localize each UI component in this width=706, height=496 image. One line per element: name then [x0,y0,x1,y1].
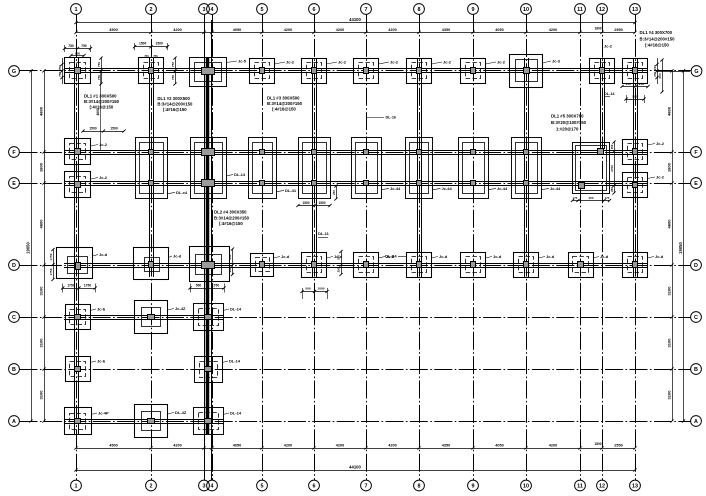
svg-text:B: B [694,367,698,373]
axis line 1 (vertical) [76,15,78,481]
grid bubble 8 bottom [414,480,425,491]
beam label DL-11 on column 6 beam [318,237,328,239]
svg-text:6: 6 [313,7,316,13]
label leader footing B/1 [90,361,96,363]
svg-text:4800: 4800 [96,108,100,115]
svg-text:19050: 19050 [678,242,683,254]
footing J-2 at G/6 [302,59,327,84]
svg-text:F: F [694,150,698,156]
svg-text:1000: 1000 [318,287,325,291]
label leader footing G/12 (above) [602,49,604,58]
grid bubble 3 top [199,4,210,15]
svg-text:4800: 4800 [39,219,44,229]
svg-text:2550: 2550 [614,28,622,32]
footing J-2 at F/1 [65,139,91,165]
footing J-3 at G/10 [510,55,543,88]
svg-text:Jc-d: Jc-d [546,254,555,259]
svg-text:Jc-d: Jc-d [439,254,448,259]
segment dimension line right [672,71,674,421]
segment dimension line top [76,32,635,34]
svg-text:750: 750 [68,44,74,48]
svg-text:10: 10 [523,484,529,490]
grid bubble 8 top [414,4,425,15]
svg-text:9: 9 [472,7,475,13]
combined footing J-6 at F-E/11-12 (large) [573,143,610,194]
svg-text:500: 500 [75,51,80,55]
label leader footing G/6 [327,62,338,64]
svg-text:Jc-d: Jc-d [655,254,664,259]
label leader footing G/5 [275,62,286,64]
svg-text:13: 13 [632,484,638,490]
svg-text:DL1 #2 300X500: DL1 #2 300X500 [157,96,190,101]
footing J-2 at D/6 [302,253,327,278]
axis line A (horizontal) [20,421,691,423]
svg-text:1800: 1800 [594,26,601,30]
grid bubble E left [9,178,20,189]
label leader footing D/11 [593,257,599,259]
grid bubble 5 top [257,4,268,15]
svg-text:2700: 2700 [610,165,614,172]
svg-text:Jc-2: Jc-2 [656,174,665,179]
grid bubble A left [9,416,20,427]
combined footing J-4 at F-E/2 [136,138,168,199]
svg-text:5: 5 [261,484,264,490]
svg-text:Jc-2: Jc-2 [338,59,347,64]
svg-text:DL-11: DL-11 [318,231,330,236]
svg-text:B:3#14@200#150: B:3#14@200#150 [157,101,193,106]
svg-text:DL-14: DL-14 [604,92,615,96]
label leader footing D/8 (left) [398,256,407,258]
svg-text:750: 750 [58,65,62,70]
foundation beam row A [64,419,224,421]
segment dimension line bottom [76,448,635,450]
overall dimension line right (19050) [683,71,685,421]
svg-text:1800: 1800 [39,162,44,172]
svg-text:Jc-d: Jc-d [281,254,290,259]
svg-text:750: 750 [171,62,175,67]
svg-text:6: 6 [313,484,316,490]
svg-text:4200: 4200 [549,28,557,32]
dimension bracket right of footing D/6 [341,252,343,275]
grid bubble 10 bottom [521,480,532,491]
svg-text:4800: 4800 [39,106,44,116]
label leader footing A/1 [91,413,97,415]
axis line 12 (vertical) [602,15,604,481]
svg-text:Jc-d: Jc-d [493,254,502,259]
svg-text:Jc-4P: Jc-4P [98,410,109,415]
overall dimension line left (19050) [31,71,33,421]
svg-text:3100: 3100 [667,338,672,348]
svg-text:4: 4 [211,7,214,13]
svg-text:250: 250 [228,267,232,272]
footing J-2 at B/3-4 [195,357,223,383]
foundation beam column 13 [633,58,635,277]
svg-text:500: 500 [196,283,202,287]
dimension bracket above footing G/2 [135,46,168,48]
footing J-2 at G/13 [623,59,648,84]
grid bubble 6 top [309,4,320,15]
svg-text:B:3#14@200#150: B:3#14@200#150 [640,36,676,41]
grid bubble D right [691,260,702,271]
svg-text:G: G [694,69,698,75]
svg-text:DL-41: DL-41 [285,188,297,193]
label leader footing C/1 [90,309,96,311]
svg-text:DL-x4: DL-x4 [176,190,188,195]
grid bubble 1 top [71,4,82,15]
svg-text:4050: 4050 [495,28,503,32]
foundation beam row F [64,150,648,152]
svg-text:Jc-2: Jc-2 [604,44,613,49]
svg-text:D: D [694,263,698,269]
dimension leader line between G/1 and F/1 [100,73,102,150]
grid bubble 4 top [207,4,218,15]
footing J-2 at E/1 [65,172,91,198]
axis line 4 (vertical) [212,15,214,481]
foundation beam row E [64,181,648,183]
footing J-2 at D/5 [251,254,274,277]
axis line F (horizontal) [20,152,691,154]
foundation beam column 6 [312,58,314,277]
combined footing J-4 at F-E/9 [459,138,489,199]
grid bubble 10 top [521,4,532,15]
footing J-2 at G/7 [354,59,379,84]
svg-text:Jc-44: Jc-44 [442,186,453,191]
svg-text:4200: 4200 [336,444,344,448]
svg-text:4200: 4200 [173,444,181,448]
svg-text:C: C [12,315,16,321]
grid bubble A right [691,416,702,427]
overall dimension line bottom (44100) [76,470,635,472]
svg-text:750: 750 [171,75,175,80]
axis line 10 (vertical) [526,15,528,481]
dimension bracket below footing G/13 [622,86,648,88]
label leader footing G/7 [379,62,390,64]
svg-text:1800: 1800 [667,162,672,172]
grid bubble B left [9,364,20,375]
svg-text:4200: 4200 [549,444,557,448]
dimension bracket below footing D/3-4 [190,288,224,290]
svg-text:3100: 3100 [39,338,44,348]
svg-text:4500: 4500 [109,28,117,32]
footing J-2 at G/9 [461,59,486,84]
svg-text:4200: 4200 [284,444,292,448]
svg-text:DL-16: DL-16 [386,116,397,120]
label leader footing G/8 [432,62,443,64]
svg-text:500: 500 [658,73,662,78]
dimension bracket right of footing D/3-4 [232,249,234,275]
dimension bracket left of footing G/1 [62,58,64,84]
axis line 3 (vertical) [204,15,206,481]
overall dimension line top (44100) [76,22,635,24]
footing J-1 at G/1 [65,58,91,84]
grid bubble E right [691,178,702,189]
grid bubble 11 top [575,4,586,15]
svg-text:250: 250 [653,71,657,76]
svg-text:DL1 #5 300X700: DL1 #5 300X700 [551,114,584,119]
axis line 6 (vertical) [314,15,316,481]
grid bubble 2 bottom [146,480,157,491]
svg-text:4200: 4200 [284,28,292,32]
footing J-3 at D/1 [57,248,93,279]
svg-text:1750: 1750 [67,283,75,287]
svg-text:5: 5 [261,7,264,13]
axis line G (horizontal) [20,70,691,72]
footing J-2 at D/10 [514,253,539,278]
label leader footing D/9 [486,257,493,259]
footing J-2 at G/8 [407,59,432,84]
dimension bracket left of footing D/1 [53,250,55,280]
combined footing J-4 at F-E/3-4 [191,138,227,199]
label leader footing G/10 [543,61,552,63]
footing J-5 at G/3-4 (wall footing) [190,58,227,87]
footing J-7 at C/2 [135,301,168,334]
svg-text:44100: 44100 [349,464,361,469]
svg-text:250: 250 [610,144,614,149]
svg-text:1750: 1750 [49,253,53,260]
dimension bracket above footing G/1 [65,48,91,50]
svg-text:B: B [12,367,16,373]
label leader footing D/7 [379,257,386,259]
svg-text:13: 13 [632,7,638,13]
label leader footing D/2 [169,256,173,258]
svg-text:A: A [12,419,16,425]
label leader footing D/6 [327,257,334,259]
footing J-2 at D/13 [623,253,648,278]
svg-text:1750: 1750 [49,268,53,275]
combined footing J-4 at F-E/5 [249,138,277,199]
svg-text:B:3#14@200#150: B:3#14@200#150 [214,215,250,220]
svg-text:B:3#14@200#150: B:3#14@200#150 [84,99,120,104]
axis line 8 (vertical) [419,15,421,481]
footing J-1 at G/2 [139,58,164,84]
svg-text:Jc-2: Jc-2 [286,59,295,64]
footing J-2 at D/11 [569,253,594,278]
footing J-2 at C/3-4 [194,304,224,331]
footing J-2 at A/1 [65,408,92,435]
combined footing J-4 at F-E/10 [512,138,542,199]
grid bubble C right [691,312,702,323]
svg-text:1: 1 [75,7,78,13]
svg-text:4350: 4350 [442,444,450,448]
label leader footing D/1 [93,255,99,256]
dimension bracket below footing D/1 [63,288,95,290]
svg-text:Jc-b: Jc-b [97,306,106,311]
svg-text:4800: 4800 [667,219,672,229]
footing J-2 at B/1 [66,357,91,382]
svg-text:(:4#16@150: (:4#16@150 [645,43,669,48]
svg-text:1500: 1500 [89,127,97,131]
label leader footing D/13 [648,257,655,259]
svg-text:1500: 1500 [139,41,147,45]
label leader footing E/1 [91,178,98,180]
svg-text:Jc-b: Jc-b [97,358,106,363]
svg-text:250: 250 [228,254,232,259]
grid bubble G left [9,66,20,77]
grid bubble 13 top [630,4,641,15]
foundation beam column 8 [417,58,419,277]
foundation beam row C [64,315,224,317]
combined footing J-4 at F-E/6 [299,138,331,199]
svg-text:8: 8 [418,484,421,490]
svg-text:10: 10 [523,7,529,13]
svg-text:12: 12 [599,7,605,13]
svg-text:750: 750 [81,44,87,48]
label leader footing A/3-4 [223,413,229,415]
grid bubble 1 bottom [71,480,82,491]
svg-text:250: 250 [653,65,657,70]
footing J-2 at G/5 [250,59,275,84]
grid bubble 11 bottom [575,480,586,491]
svg-text:4200: 4200 [336,28,344,32]
svg-text:7: 7 [365,484,368,490]
svg-text:4050: 4050 [495,444,503,448]
svg-text:DL-14: DL-14 [229,358,241,363]
axis line 2 (vertical) [151,15,153,481]
grid bubble 12 top [597,4,608,15]
svg-text:E: E [12,181,16,187]
label leader footing C/2 [168,309,175,311]
svg-text:750: 750 [153,54,158,58]
grid bubble 6 bottom [309,480,320,491]
footing J-2 at E/13 [623,173,648,198]
label leader footing D/5 [274,257,281,259]
svg-text:Jc-44: Jc-44 [390,186,401,191]
dimension bracket below footing 11-12 [573,200,610,202]
grid bubble B right [691,364,702,375]
grid bubble 9 bottom [468,480,479,491]
grid bubble G right [657,71,690,73]
footing J-2 at D/8 [407,253,432,278]
svg-text:1500: 1500 [156,41,164,45]
wall line 3-4 (heavy) [206,57,210,435]
axis line 11 (vertical) [580,15,582,481]
beam label on column 12 beam [605,96,611,98]
svg-text:250: 250 [337,267,341,272]
svg-text:DL1 #4 300X700: DL1 #4 300X700 [640,30,673,35]
svg-text:1: 1 [75,484,78,490]
svg-text:DL1 #3 300X500: DL1 #3 300X500 [267,96,300,101]
grid bubble F left [9,147,20,158]
svg-text:4200: 4200 [173,28,181,32]
svg-text:12: 12 [599,484,605,490]
svg-text:4500: 4500 [109,444,117,448]
svg-text:3: 3 [203,484,206,490]
svg-text:DL-4Z: DL-4Z [175,410,187,415]
grid bubble C left [9,312,20,323]
svg-text:4350: 4350 [442,28,450,32]
svg-text:Jc-2: Jc-2 [99,175,108,180]
svg-text:4: 4 [211,484,214,490]
label leader footing C/3-4 [223,309,229,311]
svg-text:2: 2 [150,484,153,490]
svg-text:DL-14: DL-14 [230,410,242,415]
footing J-2 at D/7 [354,253,379,278]
svg-text:F: F [12,150,16,156]
svg-text:DL-14: DL-14 [234,172,246,177]
axis line C (horizontal) [20,317,691,319]
grid bubble 7 bottom [361,480,372,491]
grid bubble 13 bottom [630,480,641,491]
svg-text:E: E [694,181,698,187]
footing J-2 at G/12 [590,59,615,84]
svg-text:3100: 3100 [39,390,44,400]
axis line 5 (vertical) [262,15,264,481]
label leader footing G/3-4 [227,61,238,63]
dimension bracket above footing F/1 [83,131,124,133]
dimension bracket right of footing G/13 [657,58,659,84]
svg-text:2: 2 [150,7,153,13]
svg-text:1:#20@170: 1:#20@170 [556,126,579,131]
svg-text:1800: 1800 [594,442,601,446]
svg-text:Jc-2: Jc-2 [390,59,399,64]
svg-text:Jc-44: Jc-44 [550,186,561,191]
svg-text:500: 500 [305,287,310,291]
svg-text:DL-E4: DL-E4 [385,253,397,258]
svg-text:(:4#16@150: (:4#16@150 [163,107,187,112]
combined footing J-4 at F-E/7 [352,138,382,199]
svg-text:B:3#20@100#150: B:3#20@100#150 [551,120,587,125]
svg-text:DL-14: DL-14 [230,306,242,311]
svg-text:4200: 4200 [388,28,396,32]
svg-text:Jc-3: Jc-3 [552,58,561,63]
svg-text:4050: 4050 [233,444,241,448]
foundation beam column 10 [524,58,526,277]
svg-text:1500: 1500 [302,201,309,205]
svg-text:1750: 1750 [212,283,220,287]
axis line 9 (vertical) [473,15,475,481]
grid bubble 2 top [146,4,157,15]
label leader footing F/13 [648,144,656,146]
footing J-2 at C/1 [66,305,91,330]
svg-text:9: 9 [472,484,475,490]
grid bubble 9 top [468,4,479,15]
svg-text:19050: 19050 [26,242,31,254]
svg-text:750: 750 [97,62,101,67]
grid bubble 3 bottom [199,480,210,491]
svg-text:7: 7 [365,7,368,13]
svg-text:44100: 44100 [349,17,361,22]
foundation beam column 1 [74,58,76,434]
label leader footing A/2 [168,413,175,415]
svg-text:Jc-d: Jc-d [600,254,609,259]
footing J-3 at D/2 [134,248,169,280]
svg-text:Jc-2: Jc-2 [497,59,506,64]
svg-text:250: 250 [332,190,336,195]
axis line E (horizontal) [20,183,691,185]
svg-text:Jc-5: Jc-5 [238,58,247,63]
svg-text:3100: 3100 [39,286,44,296]
grid bubble D left [9,260,20,271]
label leader footing B/3-4 [222,361,228,363]
label leader footing F/1 [91,145,98,147]
dimension bracket right of footing G/1 [101,58,103,84]
dimension bracket right of footing 11-12 [614,142,616,193]
svg-text:3100: 3100 [667,286,672,296]
svg-text:1750: 1750 [84,283,92,287]
svg-text:3100: 3100 [667,390,672,400]
grid bubble 4 bottom [207,480,218,491]
axis line B (horizontal) [20,369,691,371]
svg-text:D: D [12,263,16,269]
label leader footing G/9 [486,62,497,64]
svg-text:4800: 4800 [667,106,672,116]
label leader footing E/13 [648,177,656,179]
svg-text:Jc-44: Jc-44 [497,186,508,191]
axis line D (horizontal) [20,265,691,267]
svg-text:11: 11 [577,7,583,13]
dimension bracket below footing D/6 [302,291,327,293]
svg-text:Jc-d: Jc-d [99,252,108,257]
